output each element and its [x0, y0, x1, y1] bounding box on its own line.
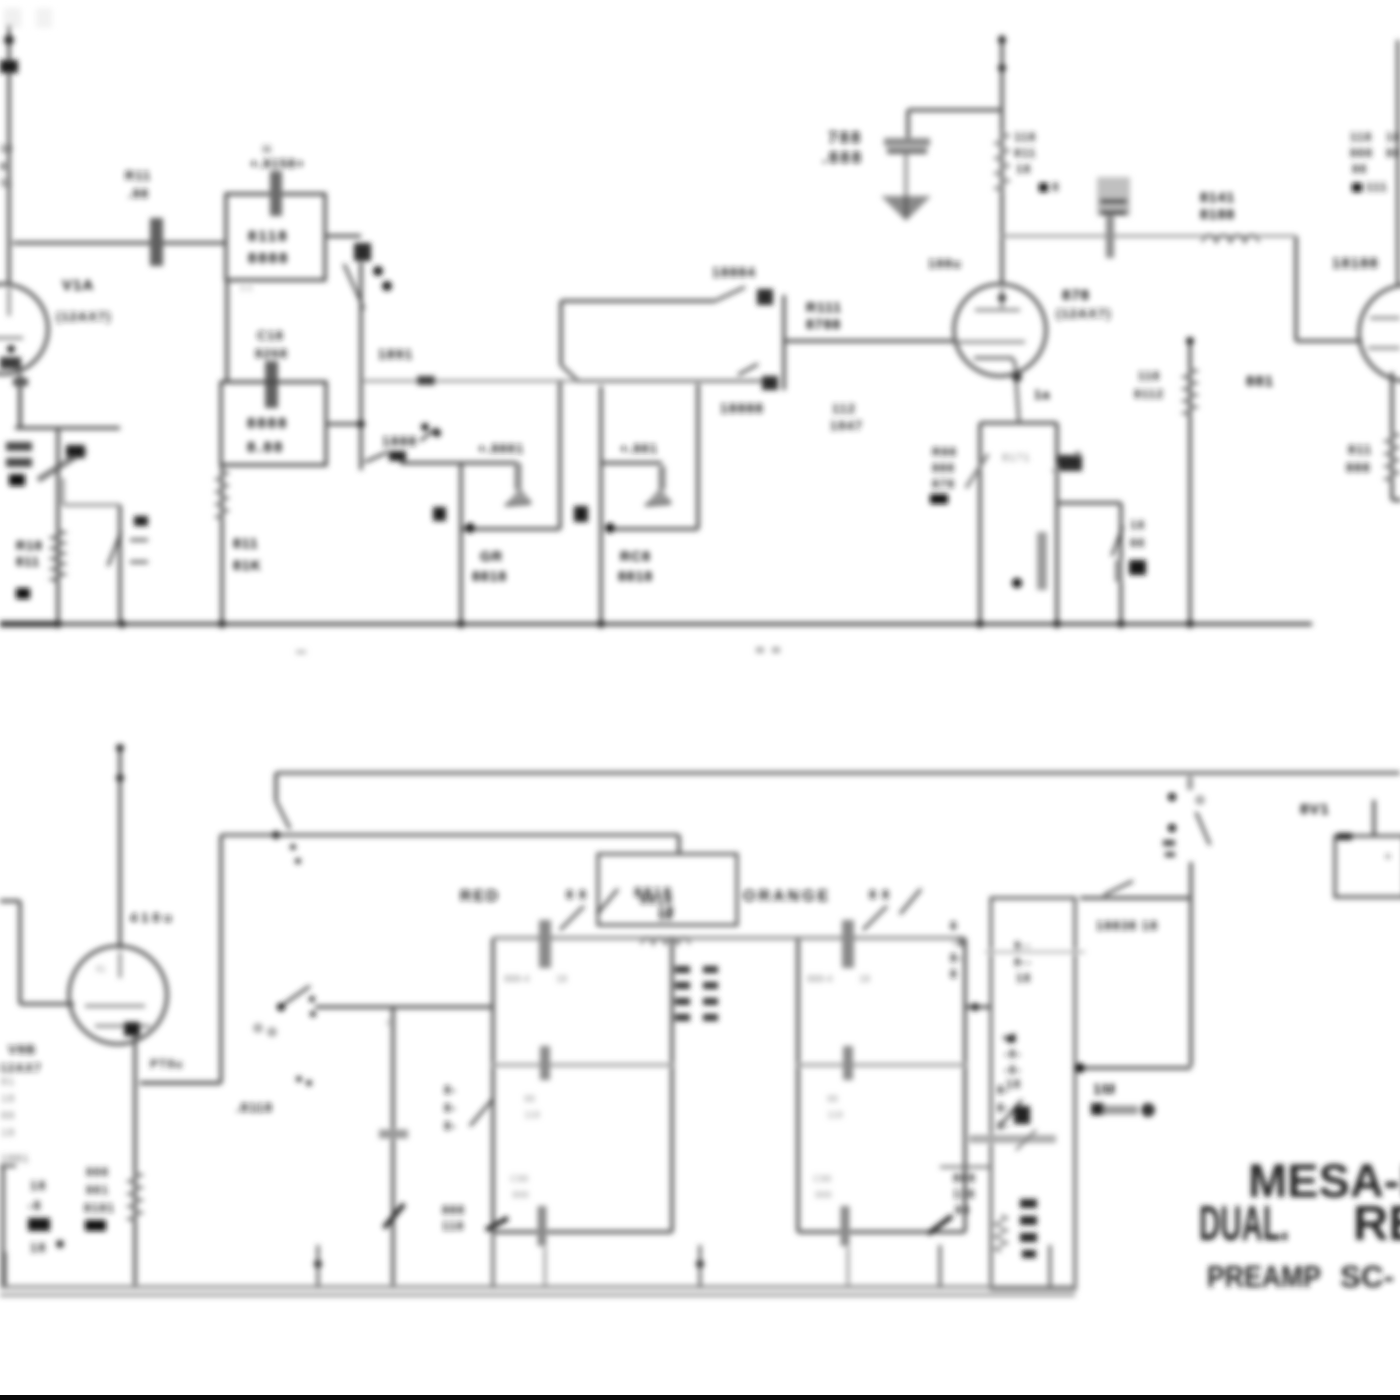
svg-text:ORANGE: ORANGE [743, 888, 831, 905]
svg-text:111: 111 [1366, 180, 1388, 194]
svg-text:8: 8 [1052, 180, 1060, 194]
svg-text:(12AX7): (12AX7) [1056, 306, 1111, 321]
svg-text:18188: 18188 [1332, 255, 1379, 272]
svg-text:8-: 8- [444, 1083, 457, 1097]
svg-text:811: 811 [1348, 442, 1372, 457]
svg-text:V1A: V1A [62, 277, 94, 294]
svg-text:8-: 8- [444, 1101, 457, 1115]
svg-text:8-: 8- [444, 1119, 457, 1133]
svg-text:.8118: .8118 [236, 1100, 273, 1115]
svg-text:188u: 188u [928, 256, 962, 271]
svg-text:PREAMP: PREAMP [1207, 1259, 1321, 1294]
svg-text:8: 8 [950, 919, 958, 933]
svg-text:8 8: 8 8 [566, 887, 587, 902]
svg-text:R111: R111 [806, 299, 842, 315]
svg-text:888: 888 [1346, 460, 1371, 475]
svg-text:18: 18 [1386, 130, 1400, 144]
svg-text:R11: R11 [125, 168, 151, 183]
svg-text:-8: -8 [952, 935, 965, 949]
svg-text:PT8u: PT8u [150, 1057, 183, 1071]
svg-text:8888: 8888 [247, 415, 288, 432]
svg-text:81: 81 [96, 964, 106, 974]
svg-text:18: 18 [1006, 1077, 1021, 1091]
svg-text:88: 88 [955, 1203, 970, 1217]
svg-text:+.8158+: +.8158+ [250, 156, 305, 171]
svg-text:8-: 8- [997, 1101, 1010, 1115]
svg-text:88: 88 [1352, 162, 1367, 176]
svg-text:RC8: RC8 [620, 548, 651, 564]
svg-text:18: 18 [1130, 518, 1145, 532]
svg-text:88: 88 [827, 1094, 839, 1105]
svg-text:788: 788 [828, 128, 862, 147]
svg-text:C88: C88 [813, 1174, 832, 1185]
svg-text:12AX7: 12AX7 [0, 1061, 42, 1075]
svg-text:8.88: 8.88 [247, 439, 284, 456]
svg-text:8818: 8818 [640, 892, 673, 907]
svg-text:SC-: SC- [1340, 1259, 1394, 1294]
svg-text:18: 18 [1016, 162, 1031, 176]
svg-text:18888: 18888 [720, 400, 764, 416]
svg-text:1888: 1888 [382, 433, 417, 449]
svg-text:8888: 8888 [248, 250, 289, 267]
svg-text:11: 11 [262, 144, 272, 154]
svg-text:878: 878 [932, 477, 955, 491]
svg-text:118: 118 [1350, 130, 1372, 144]
svg-text:RE: RE [1353, 1197, 1400, 1251]
svg-text:8: 8 [950, 967, 958, 981]
svg-text:1a: 1a [1034, 387, 1050, 402]
svg-text:R18: R18 [16, 538, 43, 553]
svg-text:-8-: -8- [1004, 1047, 1022, 1061]
svg-text:811: 811 [16, 554, 40, 569]
svg-text:8788: 8788 [806, 316, 841, 332]
svg-text:88: 88 [1, 1110, 15, 1122]
svg-text:+.881: +.881 [620, 441, 658, 456]
svg-text:R88: R88 [932, 445, 957, 459]
svg-text:18: 18 [658, 909, 673, 923]
svg-text:1891: 1891 [378, 346, 413, 362]
svg-text:888-4: 888-4 [504, 974, 530, 985]
svg-text:8818: 8818 [618, 568, 653, 584]
svg-text:888: 888 [442, 1203, 465, 1217]
svg-text:81K: 81K [233, 557, 262, 573]
svg-text:1M: 1M [1093, 1081, 1116, 1098]
svg-text:1847: 1847 [830, 418, 863, 433]
svg-text:V8B: V8B [8, 1042, 36, 1057]
svg-text:118: 118 [1014, 130, 1036, 144]
svg-text:418u: 418u [130, 910, 176, 925]
svg-text:.88: .88 [128, 186, 149, 201]
svg-text:18: 18 [556, 974, 568, 985]
svg-text:118: 118 [442, 1219, 464, 1233]
svg-text:+8: +8 [1002, 1031, 1018, 1045]
svg-text:8268: 8268 [255, 346, 288, 361]
svg-text:(12AX7): (12AX7) [56, 309, 111, 324]
svg-text:888: 888 [815, 1190, 832, 1201]
svg-text:881: 881 [1246, 373, 1274, 390]
svg-text:888-4: 888-4 [807, 974, 833, 985]
svg-text:8112: 8112 [1134, 387, 1164, 401]
svg-text:-8: -8 [28, 1198, 42, 1213]
svg-text:888: 888 [953, 1171, 976, 1185]
svg-text:8181: 8181 [84, 1201, 115, 1215]
svg-text:+: + [1385, 852, 1391, 863]
svg-text:888: 888 [512, 1190, 529, 1201]
svg-text:18: 18 [859, 974, 871, 985]
svg-text:18: 18 [30, 1240, 46, 1255]
svg-text:881: 881 [86, 1183, 109, 1197]
svg-text:18: 18 [1016, 971, 1031, 985]
svg-text:888: 888 [932, 461, 955, 475]
svg-text:8--: 8-- [1014, 955, 1032, 969]
svg-text:18: 18 [0, 143, 12, 155]
svg-text:-8-: -8- [1004, 1063, 1022, 1077]
svg-text:88: 88 [1130, 536, 1145, 550]
svg-text:8: 8 [386, 1018, 391, 1028]
svg-text:18: 18 [1, 1093, 15, 1105]
svg-text:8 8: 8 8 [869, 887, 890, 902]
svg-text:18884: 18884 [712, 264, 756, 280]
svg-text:RED: RED [460, 888, 500, 905]
svg-text:81: 81 [1, 1076, 15, 1088]
svg-text:8818: 8818 [472, 568, 507, 584]
svg-text:8.8: 8.8 [240, 283, 253, 293]
svg-text:8: 8 [0, 161, 6, 173]
svg-text:8188: 8188 [1200, 206, 1235, 222]
svg-text:888: 888 [1350, 146, 1373, 160]
svg-text:C88: C88 [510, 1174, 529, 1185]
svg-text:18838 18: 18838 18 [1096, 918, 1158, 933]
svg-text:8-: 8- [950, 951, 963, 965]
svg-text:118: 118 [524, 1110, 540, 1121]
svg-text:88: 88 [524, 1094, 536, 1105]
svg-text:88: 88 [1386, 146, 1400, 160]
svg-text:8141: 8141 [1200, 189, 1235, 205]
svg-text:112: 112 [832, 401, 856, 416]
svg-text:878: 878 [1062, 287, 1090, 304]
svg-text:DUAL.: DUAL. [1199, 1197, 1289, 1251]
svg-text:118: 118 [1138, 369, 1160, 383]
svg-text:1881: 1881 [1, 1153, 29, 1165]
svg-text:18: 18 [30, 1178, 46, 1193]
svg-text:811: 811 [1014, 146, 1036, 160]
svg-text:+.8881: +.8881 [478, 441, 524, 456]
svg-text:118: 118 [953, 1187, 975, 1201]
svg-text:8171: 8171 [1002, 452, 1030, 464]
svg-text:C18: C18 [257, 328, 284, 343]
svg-text:8118: 8118 [248, 228, 289, 245]
svg-text:118: 118 [827, 1110, 843, 1121]
svg-text:.888: .888 [822, 148, 863, 167]
svg-text:8V1: 8V1 [1300, 801, 1330, 818]
svg-text:811: 811 [233, 535, 259, 551]
svg-text:GR: GR [480, 548, 503, 564]
svg-text:888: 888 [86, 1165, 109, 1179]
svg-text:18: 18 [1, 1127, 15, 1139]
svg-text:11: 11 [0, 177, 12, 189]
